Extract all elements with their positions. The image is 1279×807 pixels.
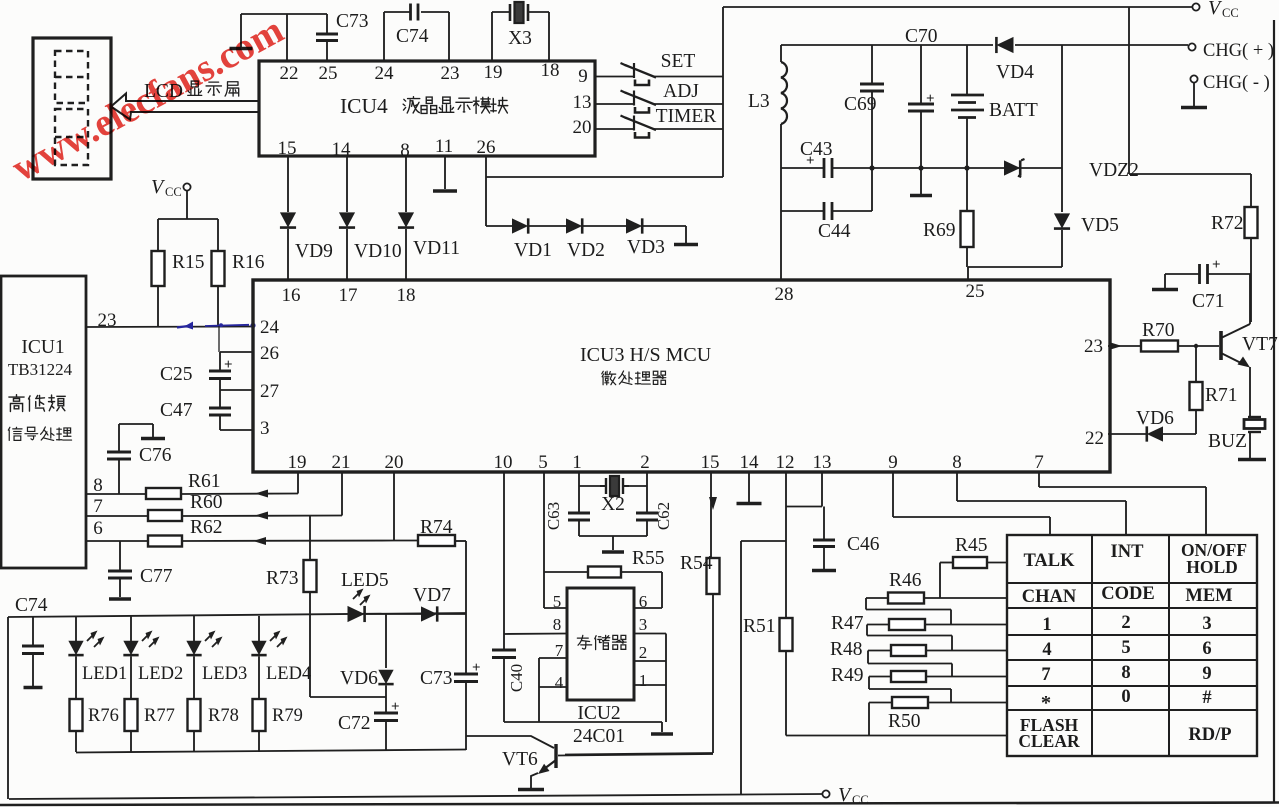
buzzer BUZ (1248, 416, 1261, 418)
capacitor C76 (118, 424, 120, 452)
svg-text:18: 18 (397, 285, 416, 306)
svg-text:28: 28 (775, 284, 794, 305)
ground at top-left (240, 14, 242, 47)
diode VD6 (bottom) (378, 670, 393, 684)
resistor R50 (892, 697, 928, 708)
svg-text:#: # (1202, 688, 1211, 708)
svg-text:27: 27 (260, 381, 279, 402)
terminal CHG(+) (1188, 43, 1195, 50)
wire R47 right to row1 (925, 624, 1007, 626)
wire VT7 emitter to BUZ (1249, 367, 1251, 417)
svg-text:3: 3 (639, 615, 648, 634)
svg-text:R60: R60 (190, 492, 223, 513)
svg-text:VT7: VT7 (1242, 334, 1278, 355)
wire R49 right to row7 (926, 676, 1007, 678)
wire VT6 collector row (558, 754, 713, 756)
capacitor C74 (top) (409, 4, 412, 21)
svg-text:19: 19 (484, 62, 503, 83)
wire VD9 to ICU3 (287, 229, 289, 280)
wire pin12-13 jog (786, 506, 822, 508)
svg-text:R61: R61 (188, 471, 221, 492)
svg-text:C25: C25 (160, 364, 193, 385)
wire pin12 node to bottom rail (741, 540, 786, 542)
wire C44 row (781, 210, 824, 212)
svg-text:C69: C69 (844, 94, 877, 115)
wire ICU3 pin5 drop (543, 472, 545, 608)
svg-text:X3: X3 (508, 28, 532, 49)
svg-text:LED1: LED1 (82, 664, 127, 684)
wire VD6 to C72 (385, 686, 387, 714)
svg-text:BUZ: BUZ (1208, 431, 1247, 452)
wire VD1-VD2 (529, 225, 566, 227)
resistor R74 (418, 535, 455, 546)
wire VD1 row start (486, 225, 512, 227)
diode VD7 (421, 606, 437, 621)
wire C74 loop (383, 12, 385, 61)
capacitor C25 (219, 352, 221, 371)
svg-text:C46: C46 (847, 534, 880, 555)
wire R50 left hook (869, 702, 892, 704)
svg-text:0: 0 (1121, 687, 1130, 707)
resistor R49 (891, 671, 926, 682)
wire VD10 to ICU3 (346, 229, 348, 280)
resistor R16 (217, 219, 219, 251)
label 高低频 (9, 395, 24, 412)
junction dot C69 node (869, 165, 874, 170)
svg-text:R16: R16 (232, 252, 265, 273)
svg-text:23: 23 (441, 63, 460, 84)
IC ICU1 box (1, 276, 86, 568)
svg-text:22: 22 (1085, 428, 1104, 449)
ground after VD3 (674, 243, 698, 247)
battery BATT (966, 45, 968, 95)
svg-text:+: + (224, 357, 233, 373)
diode VD11 (398, 212, 414, 227)
CHG+ rail (781, 44, 993, 46)
svg-text:R47: R47 (831, 613, 864, 634)
inductor L3 (780, 45, 782, 62)
wire ICU4 to VD10 (346, 156, 348, 212)
arrow on pin6 row (253, 537, 266, 545)
wire ICU3 pin20 drop (393, 472, 395, 541)
wire R46 left hook (866, 597, 888, 599)
svg-text:C72: C72 (338, 713, 371, 734)
LCD digit segment lower (55, 109, 88, 165)
svg-text:18: 18 (541, 60, 560, 81)
Vcc top rail (723, 6, 1192, 8)
wire ICU3 pin8 to INT col (956, 472, 958, 501)
switch SET (633, 63, 635, 78)
svg-text:C70: C70 (905, 26, 938, 47)
wire ICU3 pin26 stub (220, 351, 253, 353)
svg-text:RD/P: RD/P (1188, 725, 1231, 745)
svg-text:R73: R73 (266, 568, 299, 589)
svg-text:17: 17 (339, 285, 358, 306)
svg-text:24: 24 (375, 63, 395, 84)
svg-text:VD6: VD6 (1136, 408, 1174, 429)
terminal Vcc left (183, 183, 190, 190)
svg-text:CC: CC (1222, 6, 1239, 20)
diode VD4 (996, 37, 1013, 53)
svg-text:15: 15 (278, 138, 297, 159)
svg-text:CHG( - ): CHG( - ) (1203, 73, 1270, 93)
svg-text:5: 5 (538, 452, 548, 473)
wire pin10 to ICU2 pin8 (504, 633, 567, 636)
svg-text:C47: C47 (160, 400, 193, 421)
LED anode rail (8, 613, 466, 617)
svg-text:LED4: LED4 (266, 664, 311, 684)
junction dot BATT node (964, 165, 969, 170)
svg-text:21: 21 (332, 452, 351, 473)
svg-text:CODE: CODE (1101, 584, 1154, 604)
wire ICU2 pins 3-2-1 bus (634, 633, 666, 635)
wire R55 right to ICU2 pin6 (661, 572, 663, 608)
svg-text:C43: C43 (800, 139, 833, 160)
IC ICU3 MCU box (253, 280, 1110, 472)
wire pin15 drop with arrow (710, 472, 712, 558)
svg-text:R50: R50 (888, 711, 921, 732)
ground at VT6 (518, 788, 544, 792)
svg-text:VD7: VD7 (413, 585, 451, 606)
diode VD1 (512, 218, 528, 233)
wire pin22 to top rail (286, 14, 288, 61)
svg-text:R72: R72 (1211, 213, 1244, 234)
resistor R70 (1141, 341, 1178, 352)
transistor VT6 (554, 744, 557, 768)
svg-text:24C01: 24C01 (573, 726, 625, 747)
svg-text:5: 5 (553, 592, 562, 611)
wire VDZ2 down to VD5 (1061, 168, 1063, 212)
svg-text:R69: R69 (923, 220, 956, 241)
ground at C76 (141, 437, 165, 441)
svg-text:8: 8 (952, 452, 962, 473)
resistor R51 (780, 618, 793, 651)
arrow from ICU3 pin23 (1108, 345, 1141, 347)
wire X2 bottom row (579, 535, 647, 537)
svg-text:VD2: VD2 (567, 240, 605, 261)
wire ICU4 to VD9 (287, 156, 289, 212)
svg-text:TALK: TALK (1023, 551, 1075, 571)
ground stub pin14 (748, 472, 750, 502)
resistor R62 (148, 536, 182, 547)
junction LED5/VD6 node (385, 614, 387, 668)
svg-text:+: + (926, 91, 935, 107)
svg-text:14: 14 (740, 452, 760, 473)
svg-text:MEM: MEM (1185, 586, 1232, 606)
ground at CHG(-) (1193, 83, 1195, 106)
svg-text:TIMER: TIMER (656, 106, 717, 127)
svg-text:6: 6 (93, 518, 103, 539)
svg-text:CHAN: CHAN (1022, 587, 1077, 607)
svg-text:VD11: VD11 (413, 238, 460, 259)
wire ICU3 pin9 to TALK col (892, 472, 894, 517)
wire ICU1 pin6 row (85, 540, 148, 542)
LED LED4 (258, 616, 260, 641)
svg-text:16: 16 (282, 285, 301, 306)
label 微处理器 (602, 371, 616, 384)
node wire C43 row (781, 167, 824, 169)
wire pin25 stub (967, 267, 969, 280)
svg-text:*: * (1041, 692, 1051, 714)
wire R50 right to star row (928, 702, 1007, 704)
svg-text:R54: R54 (680, 553, 713, 574)
wire pin12 drop (785, 472, 787, 618)
resistor R79 (253, 699, 266, 731)
svg-text:C73: C73 (336, 11, 369, 32)
svg-text:13: 13 (813, 452, 832, 473)
ground stub ICU2 (661, 722, 663, 732)
svg-text:9: 9 (1202, 664, 1211, 684)
wire R48 right to row4 (926, 650, 1007, 652)
svg-text:L3: L3 (748, 91, 770, 112)
svg-text:C63: C63 (544, 502, 563, 530)
ground stub X2 (612, 536, 614, 550)
label 信号处理 (8, 427, 22, 440)
svg-text:C77: C77 (140, 566, 173, 587)
wire ICU4 to switch TIMER (595, 128, 633, 130)
wire R76 to bottom rail (75, 731, 77, 752)
junction R70/R71 (1194, 344, 1198, 348)
resistor R61 (146, 488, 181, 499)
svg-text:7: 7 (1034, 452, 1044, 473)
svg-text:R78: R78 (208, 706, 239, 726)
svg-text:7: 7 (93, 496, 103, 517)
wire R79 to bottom rail (258, 731, 260, 752)
svg-text:9: 9 (888, 452, 898, 473)
resistor R60 (148, 510, 182, 521)
svg-text:C40: C40 (507, 664, 526, 692)
wire R77 to bottom rail (130, 731, 132, 752)
svg-text:10: 10 (494, 452, 513, 473)
svg-text:VD4: VD4 (996, 62, 1034, 83)
svg-text:11: 11 (435, 136, 453, 157)
capacitor C46 (823, 507, 825, 541)
wire ICU1 pin8 row (85, 493, 146, 495)
keypad matrix table (1007, 535, 1257, 756)
resistor R55 (588, 567, 621, 578)
svg-text:C76: C76 (139, 445, 172, 466)
wire ICU4 to VD11 (405, 156, 407, 212)
svg-text:LED3: LED3 (202, 664, 247, 684)
wire pin13 drop (821, 472, 823, 507)
resistor R71 (1195, 346, 1197, 382)
wire R74 row (394, 540, 418, 542)
wire switch SET to bus (654, 76, 723, 78)
wire switch TIMER to bus (654, 128, 723, 130)
switch ADJ (633, 91, 635, 106)
wire R49 left hook (869, 676, 891, 678)
svg-text:C62: C62 (654, 502, 673, 530)
svg-text:R45: R45 (955, 535, 988, 556)
wire ICU3 pin3 stub (220, 429, 253, 431)
ground at C71 (1165, 273, 1199, 275)
wire ICU1 pin23 to ICU3 pin24 (85, 326, 253, 329)
svg-text:CLEAR: CLEAR (1018, 731, 1080, 751)
junction dot C70 node (918, 165, 923, 170)
wire ICU4 to switch SET (595, 76, 633, 78)
capacitor C40 (503, 634, 505, 650)
svg-text:R77: R77 (144, 706, 175, 726)
svg-text:VD6: VD6 (340, 668, 378, 689)
svg-text:R62: R62 (190, 517, 223, 538)
svg-text:ICU3 H/S MCU: ICU3 H/S MCU (580, 344, 712, 366)
svg-text:1: 1 (572, 452, 582, 473)
svg-text:R71: R71 (1205, 385, 1238, 406)
svg-text:R76: R76 (88, 706, 119, 726)
svg-text:ICU4: ICU4 (340, 94, 388, 118)
left edge wire (7, 617, 9, 799)
svg-text:9: 9 (578, 66, 588, 87)
svg-text:8: 8 (400, 140, 410, 161)
svg-text:12: 12 (776, 452, 795, 473)
capacitor C72 (374, 712, 398, 715)
svg-text:R48: R48 (830, 639, 863, 660)
crystal X3 (509, 4, 512, 21)
svg-text:R51: R51 (743, 616, 776, 637)
svg-text:SET: SET (661, 51, 696, 72)
blue retrace on pin24 wire (177, 326, 188, 328)
diode VD2 (566, 218, 582, 233)
diode VD10 (339, 212, 355, 227)
wire R73 node down (309, 615, 311, 698)
svg-text:25: 25 (966, 281, 985, 302)
LED LED5 (348, 606, 365, 622)
resistor R54 (707, 558, 720, 594)
capacitor C77 (119, 541, 121, 571)
arrow on pin8 row (255, 490, 268, 498)
resistor R46 (888, 593, 924, 604)
terminal Vcc top-right (1192, 3, 1199, 10)
wire R55 row (544, 571, 588, 573)
wire VDZ2 to CHG+ rail (1061, 45, 1063, 168)
capacitor C73 (top) (326, 14, 328, 34)
capacitor C62 (646, 486, 648, 513)
svg-text:LED5: LED5 (341, 570, 389, 591)
bottom rail to Vcc (9, 794, 822, 799)
block arrow to LCD (111, 94, 259, 120)
wire VD11 to ICU3 (405, 229, 407, 280)
svg-text:R79: R79 (272, 706, 303, 726)
svg-text:CHG( + ): CHG( + ) (1203, 41, 1274, 61)
wire ICU2 pin7/4 hook (539, 657, 567, 659)
wire ICU2 pin5 stub (544, 607, 567, 609)
svg-text:8: 8 (553, 615, 562, 634)
wire R48 left hook (868, 650, 891, 652)
wire R16 node down to pin26 row (218, 326, 220, 352)
wire VD7 to R74 column (438, 613, 466, 615)
svg-text:VD3: VD3 (627, 237, 665, 258)
ground stub below C70 (920, 168, 922, 194)
wire pin2 drop (646, 472, 648, 486)
wire R78 to bottom rail (193, 731, 195, 752)
wire R74 down C73 (465, 541, 467, 674)
svg-text:2: 2 (1121, 613, 1130, 633)
wire VD2-VD3 (583, 225, 626, 227)
wire L3 to pin28 (780, 168, 782, 280)
svg-text:C73: C73 (420, 668, 453, 689)
wire R46 right to CHAN (924, 597, 1007, 599)
LCD display panel box (33, 38, 111, 179)
svg-text:TB31224: TB31224 (8, 360, 73, 379)
svg-text:3: 3 (1202, 614, 1211, 634)
page bottom border (0, 803, 1279, 806)
capacitor C73 (bottom) (454, 673, 478, 676)
svg-text:3: 3 (260, 418, 270, 439)
svg-text:CC: CC (852, 793, 869, 807)
capacitor C44 (823, 202, 826, 220)
svg-text:ICU2: ICU2 (577, 703, 620, 724)
capacitor C74 (bottom) (32, 617, 34, 646)
resistor R69 (966, 168, 968, 211)
svg-text:R74: R74 (420, 517, 453, 538)
LED bottom rail (76, 750, 466, 753)
wire R45 right (987, 562, 1007, 564)
ground below BUZ (1238, 458, 1266, 462)
page right border (1273, 20, 1275, 803)
resistor R78 (188, 699, 201, 731)
resistor R45 (953, 557, 987, 568)
ground at C77 (109, 597, 131, 601)
svg-text:VDZ2: VDZ2 (1089, 160, 1139, 181)
diode VD3 (626, 218, 642, 233)
svg-text:8: 8 (1121, 663, 1130, 683)
svg-text:+: + (472, 660, 481, 676)
capacitor C63 (578, 486, 580, 513)
svg-text:4: 4 (555, 673, 564, 692)
wire ICU1 pin7 row (85, 515, 148, 517)
svg-text:23: 23 (1084, 336, 1103, 357)
svg-text:C44: C44 (818, 221, 851, 242)
zener diode VDZ2 (1004, 160, 1020, 175)
svg-text:HOLD: HOLD (1186, 557, 1238, 577)
capacitor C71 (1198, 264, 1201, 284)
resistor R76 (70, 699, 83, 731)
wire ICU3 pin27 stub (220, 389, 253, 391)
svg-text:6: 6 (1202, 639, 1211, 659)
svg-text:C74: C74 (396, 26, 429, 47)
ground below ICU4 pin11 (444, 156, 446, 189)
wire pin26 branch to bus (486, 176, 723, 178)
svg-text:X2: X2 (601, 494, 625, 515)
svg-text:ICU1: ICU1 (21, 337, 64, 358)
wire ICU2 bottom row (504, 721, 662, 723)
wire R54 bottom (712, 594, 714, 753)
svg-text:20: 20 (573, 117, 592, 138)
svg-text:25: 25 (319, 63, 338, 84)
svg-text:1: 1 (639, 671, 648, 690)
switch bus vertical (722, 7, 724, 177)
wire ICU4 to switch ADJ (595, 103, 633, 105)
diode VD5 (1054, 213, 1070, 228)
ground below C46 (812, 569, 836, 573)
svg-text:6: 6 (639, 592, 648, 611)
wire VD3 to ground (643, 225, 686, 227)
terminal CHG(-) (1190, 75, 1197, 82)
terminal Vcc bottom (822, 790, 829, 797)
svg-text:26: 26 (477, 137, 496, 158)
capacitor C70 (920, 45, 922, 104)
LED LED3 (193, 616, 195, 641)
wire Vcc to R15/R16 rail (186, 190, 188, 219)
wire ICU3 pin7 to ONOFF col (1038, 472, 1040, 487)
svg-text:7: 7 (1041, 665, 1050, 685)
capacitor C69 (871, 45, 873, 84)
wire Vcc drop to R72 rail (1128, 7, 1130, 174)
wire R51 bottom to FLASH row (785, 651, 787, 736)
svg-text:20: 20 (385, 452, 404, 473)
svg-text:+: + (391, 699, 400, 715)
crystal X2 (605, 478, 607, 494)
